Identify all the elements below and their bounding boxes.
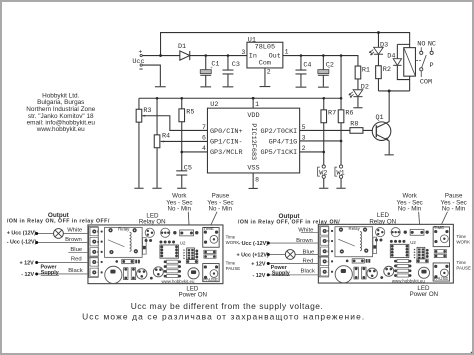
svg-text:Com: Com — [259, 60, 271, 68]
svg-text:D4: D4 — [387, 53, 395, 61]
svg-text:WORK: WORK — [456, 239, 470, 244]
svg-text:GP1/CIN-: GP1/CIN- — [210, 139, 243, 147]
svg-text:Time: Time — [226, 235, 236, 240]
svg-text:Red: Red — [71, 257, 82, 263]
svg-text:No - Min: No - Min — [398, 206, 422, 213]
svg-text:D2: D2 — [361, 84, 369, 92]
svg-text:R6: R6 — [345, 110, 353, 118]
svg-text:4: 4 — [202, 145, 206, 152]
svg-text:+ Ucc (+12V): + Ucc (+12V) — [236, 253, 269, 259]
svg-text:Ucc може да се различава от за: Ucc може да се различава от захранващото… — [82, 312, 365, 322]
svg-text:+ 12V: + 12V — [251, 262, 266, 268]
svg-text:PAUSE: PAUSE — [226, 266, 241, 271]
svg-text:C3: C3 — [232, 61, 240, 69]
svg-text:Time: Time — [456, 260, 466, 265]
svg-text:Time: Time — [456, 234, 466, 239]
svg-text:In: In — [249, 53, 257, 61]
svg-text:W2: W2 — [319, 169, 327, 177]
svg-text:1: 1 — [285, 48, 289, 55]
svg-text:Ucc may be different from the: Ucc may be different from the supply vol… — [131, 301, 324, 311]
svg-text:Blue: Blue — [303, 250, 316, 256]
svg-text:PAUSE: PAUSE — [456, 265, 471, 270]
svg-text:R5: R5 — [186, 109, 194, 117]
svg-text:No - Min: No - Min — [168, 206, 192, 213]
svg-text:R3: R3 — [143, 107, 151, 115]
svg-text:GP4/T1G: GP4/T1G — [269, 139, 298, 147]
svg-text:D1: D1 — [178, 43, 186, 51]
svg-text:R1: R1 — [362, 66, 370, 74]
svg-text:- 12V: - 12V — [21, 272, 34, 278]
svg-text:8: 8 — [255, 176, 259, 183]
svg-text:GP2/T0CKI: GP2/T0CKI — [261, 128, 298, 136]
svg-text:7: 7 — [202, 124, 206, 131]
svg-text:C4: C4 — [303, 62, 311, 70]
svg-text:/ON in Relay OFF, OFF in relay: /ON in Relay OFF, OFF in relay ON/ — [238, 219, 340, 225]
svg-text:Supply: Supply — [272, 270, 290, 276]
svg-text:- Ucc (-12V): - Ucc (-12V) — [238, 241, 268, 247]
svg-text:Blue: Blue — [70, 247, 83, 253]
svg-text:White: White — [298, 228, 314, 234]
svg-text:VDD: VDD — [247, 112, 259, 120]
svg-text:U2: U2 — [210, 101, 218, 109]
svg-text:2: 2 — [302, 145, 306, 152]
svg-text:3: 3 — [302, 135, 306, 142]
svg-text:PIC12F683: PIC12F683 — [249, 123, 257, 160]
svg-text:Power ON: Power ON — [410, 291, 439, 298]
svg-text:Ucc: Ucc — [132, 58, 144, 66]
svg-text:- 12V: - 12V — [252, 273, 265, 279]
svg-text:- Ucc (-12V): - Ucc (-12V) — [7, 240, 37, 246]
svg-text:3: 3 — [241, 49, 245, 56]
svg-text:1: 1 — [255, 101, 259, 108]
svg-text:Power ON: Power ON — [178, 292, 207, 299]
svg-text:Brown: Brown — [65, 237, 82, 243]
svg-text:Time: Time — [226, 261, 236, 266]
svg-text:D3: D3 — [380, 41, 388, 49]
svg-text:+ 12V: + 12V — [19, 261, 34, 267]
svg-text:R2: R2 — [383, 66, 391, 74]
svg-text:VSS: VSS — [247, 164, 259, 172]
svg-text:Red: Red — [303, 259, 314, 265]
svg-text:COM: COM — [420, 79, 432, 87]
svg-text:GP3/MCLR: GP3/MCLR — [210, 149, 243, 157]
svg-text:W1: W1 — [337, 169, 345, 177]
svg-text:5: 5 — [302, 124, 306, 131]
svg-text:/ON in Relay ON, OFF in relay: /ON in Relay ON, OFF in relay OFF/ — [7, 218, 110, 224]
svg-text:P: P — [429, 62, 433, 70]
svg-text:C5: C5 — [184, 164, 192, 172]
svg-text:GP0/CIN+: GP0/CIN+ — [210, 128, 243, 136]
svg-text:Supply: Supply — [41, 270, 59, 276]
svg-text:2: 2 — [267, 69, 271, 76]
svg-text:Black: Black — [68, 268, 82, 274]
svg-text:Q1: Q1 — [375, 114, 383, 122]
svg-text:Black: Black — [301, 269, 315, 275]
svg-text:Brown: Brown — [296, 238, 313, 244]
svg-text:www.hobbykit.eu: www.hobbykit.eu — [36, 126, 85, 133]
svg-text:WORK -: WORK - — [226, 240, 243, 245]
svg-text:R4: R4 — [162, 133, 170, 141]
svg-text:+ Ucc (12V): + Ucc (12V) — [7, 231, 36, 237]
svg-text:No - Min: No - Min — [209, 206, 233, 213]
svg-text:White: White — [67, 228, 83, 234]
svg-text:GP5/T1CKI: GP5/T1CKI — [261, 149, 298, 157]
svg-text:78L05: 78L05 — [255, 44, 275, 52]
svg-text:R7: R7 — [328, 110, 336, 118]
svg-text:6: 6 — [202, 135, 206, 142]
svg-text:R8: R8 — [350, 120, 358, 128]
svg-text:No - Min: No - Min — [442, 206, 466, 213]
